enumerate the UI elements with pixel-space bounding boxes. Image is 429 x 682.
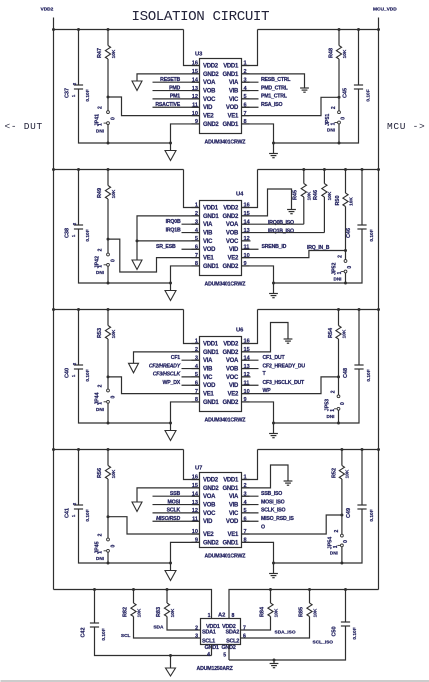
svg-text:GND1: GND1 bbox=[223, 122, 239, 128]
svg-text:5: 5 bbox=[223, 653, 226, 659]
svg-text:VDD1: VDD1 bbox=[223, 63, 239, 69]
svg-text:VOB: VOB bbox=[203, 88, 216, 94]
svg-text:GND1: GND1 bbox=[223, 72, 239, 78]
svg-text:C40: C40 bbox=[65, 368, 71, 378]
svg-text:ADUM3401CRWZ: ADUM3401CRWZ bbox=[205, 554, 247, 560]
svg-text:VID: VID bbox=[203, 519, 213, 525]
jumper JP51 DNI bbox=[338, 97, 340, 111]
svg-text:VDD2: VDD2 bbox=[41, 7, 54, 13]
svg-text:VIB: VIB bbox=[229, 88, 239, 94]
net MOSI bbox=[153, 504, 200, 506]
capacitor C45 0.1UF bbox=[358, 30, 360, 86]
svg-text:4: 4 bbox=[207, 652, 210, 658]
svg-text:ISOLATION CIRCUIT: ISOLATION CIRCUIT bbox=[132, 9, 270, 25]
svg-text:C48: C48 bbox=[343, 368, 349, 378]
svg-text:SDA: SDA bbox=[153, 625, 164, 631]
bus MCU_VDD right vertical bbox=[378, 18, 380, 590]
wire VDD rail left section U3 bbox=[54, 29, 184, 31]
ground (signal) left bbox=[129, 363, 139, 373]
net CF1_DUT bbox=[242, 359, 259, 361]
wire VE enable branch right bbox=[242, 251, 346, 258]
svg-text:2: 2 bbox=[98, 248, 104, 251]
svg-text:R48: R48 bbox=[329, 48, 335, 58]
wire VDD2 rail bottom left bbox=[54, 590, 212, 619]
svg-text:R49: R49 bbox=[97, 188, 103, 198]
svg-text:VOA: VOA bbox=[203, 80, 216, 86]
svg-text:3: 3 bbox=[195, 633, 198, 639]
svg-text:0.10F: 0.10F bbox=[85, 369, 91, 381]
svg-text:DNI: DNI bbox=[96, 556, 104, 561]
svg-text:VIA: VIA bbox=[203, 222, 213, 228]
svg-text:ADUM3401CRWZ: ADUM3401CRWZ bbox=[205, 282, 247, 288]
svg-text:2: 2 bbox=[98, 106, 104, 109]
svg-text:10K: 10K bbox=[274, 608, 280, 617]
svg-text:IRQ0B: IRQ0B bbox=[166, 219, 181, 225]
net SSB_ISO bbox=[242, 495, 259, 497]
svg-text:VID: VID bbox=[229, 383, 239, 389]
svg-text:C49: C49 bbox=[346, 508, 352, 518]
wire GND2 bottom left + ground bbox=[171, 542, 200, 570]
bus VDD2 left vertical bbox=[53, 18, 55, 590]
svg-text:C50: C50 bbox=[332, 626, 338, 636]
svg-text:VIC: VIC bbox=[229, 511, 239, 517]
svg-text:VIC: VIC bbox=[203, 239, 213, 245]
resistor R82 10K bbox=[133, 590, 135, 604]
resistor R46 10K bbox=[323, 168, 326, 171]
jumper JP45 DNI bbox=[107, 517, 109, 538]
jumper JP53 DNI bbox=[338, 377, 340, 395]
capacitor C48 0.1UF bbox=[358, 310, 360, 366]
svg-text:VOA: VOA bbox=[226, 358, 239, 364]
svg-text:GND1: GND1 bbox=[223, 540, 239, 546]
svg-text:SR_ESB: SR_ESB bbox=[156, 244, 176, 250]
svg-text:GND2: GND2 bbox=[203, 540, 219, 546]
svg-text:10K: 10K bbox=[313, 608, 319, 617]
net RSACTIVE bbox=[153, 106, 200, 108]
wire GND pin left + ground bbox=[137, 488, 200, 502]
svg-text:SCL_ISO: SCL_ISO bbox=[313, 640, 334, 646]
svg-text:MISO/RSD: MISO/RSD bbox=[156, 516, 181, 522]
svg-text:0: 0 bbox=[347, 266, 353, 269]
resistor R84 10K bbox=[270, 590, 272, 604]
svg-text:0.10F: 0.10F bbox=[352, 627, 358, 639]
capacitor C37 0.1UF bbox=[78, 30, 80, 86]
capacitor C38 0.1UF bbox=[78, 170, 80, 226]
svg-text:VOB: VOB bbox=[226, 230, 239, 236]
wire GND pin left + ground bbox=[137, 74, 200, 81]
svg-text:7: 7 bbox=[243, 625, 246, 631]
net PM1_CTRL bbox=[242, 98, 259, 100]
net SCLK_ISO bbox=[242, 512, 259, 514]
resistor R50 10K bbox=[345, 170, 347, 194]
capacitor C46 0.1UF bbox=[361, 170, 363, 226]
wire GND bottom right + earth ground bbox=[242, 124, 274, 154]
net CF1 bbox=[182, 359, 200, 361]
ground (signal) A2 left bbox=[170, 656, 172, 669]
svg-text:1: 1 bbox=[330, 409, 336, 412]
wire GND pin right + earth ground bbox=[242, 465, 289, 488]
net RSA_ISO bbox=[242, 106, 259, 108]
svg-text:0.10F: 0.10F bbox=[85, 89, 91, 101]
svg-text:VIB: VIB bbox=[229, 502, 239, 508]
wire GND2 bottom left + ground bbox=[171, 266, 200, 291]
svg-text:GND1: GND1 bbox=[203, 264, 219, 270]
net WP_DX bbox=[182, 384, 200, 386]
svg-text:C46: C46 bbox=[346, 228, 352, 238]
wire GND bottom right + earth ground bbox=[242, 542, 274, 573]
svg-text:ADUM3401CRWZ: ADUM3401CRWZ bbox=[205, 140, 247, 146]
wire GND pin right + earth ground bbox=[242, 189, 292, 216]
svg-text:R83: R83 bbox=[156, 607, 162, 617]
svg-text:DNI: DNI bbox=[334, 277, 342, 282]
ground (signal) left bbox=[132, 81, 142, 91]
resistor R53 10K bbox=[107, 310, 109, 326]
svg-text:SRENB_ID: SRENB_ID bbox=[262, 244, 287, 250]
window edge artifact bbox=[1, 680, 429, 681]
svg-text:C41: C41 bbox=[65, 508, 71, 518]
wire GND2 bottom A2 + earth bbox=[228, 645, 230, 661]
net SRENB_ID bbox=[242, 248, 259, 250]
resistor R56 10K bbox=[107, 450, 109, 466]
resistor R52 10K bbox=[341, 450, 343, 466]
wire GND bottom right + earth ground bbox=[242, 402, 274, 434]
svg-text:SCL2: SCL2 bbox=[226, 639, 239, 645]
svg-text:VE1: VE1 bbox=[203, 256, 214, 262]
svg-text:IRQ_IN_B: IRQ_IN_B bbox=[307, 245, 330, 251]
svg-text:0.10F: 0.10F bbox=[366, 89, 372, 101]
svg-text:C37: C37 bbox=[65, 88, 71, 98]
wire GND pin left + ground bbox=[134, 352, 200, 363]
resistor R45 10K bbox=[302, 168, 305, 171]
ground (signal) left bbox=[132, 502, 142, 512]
isolator IC U7 ADUM3401CRWZ bbox=[200, 473, 242, 548]
svg-text:GND2: GND2 bbox=[223, 214, 239, 220]
isolator IC U3 ADUM3401CRWZ bbox=[200, 59, 242, 134]
net CF2_HREADY_DU bbox=[242, 368, 259, 370]
svg-text:O: O bbox=[261, 524, 265, 530]
svg-text:1: 1 bbox=[98, 265, 104, 268]
svg-text:C42: C42 bbox=[81, 627, 87, 637]
wire GND pin right + earth ground bbox=[242, 74, 305, 88]
svg-text:0: 0 bbox=[343, 540, 349, 543]
svg-text:0.10F: 0.10F bbox=[369, 509, 375, 521]
svg-text:DNI: DNI bbox=[330, 551, 338, 556]
svg-text:10K: 10K bbox=[342, 49, 348, 58]
svg-text:GND2: GND2 bbox=[223, 350, 239, 356]
net MISO/RSD bbox=[153, 520, 200, 522]
net PM1 bbox=[153, 98, 200, 100]
svg-text:VOC: VOC bbox=[226, 375, 239, 381]
svg-text:MCU ->: MCU -> bbox=[387, 121, 425, 132]
svg-text:MISO_RSD_IS: MISO_RSD_IS bbox=[261, 516, 294, 522]
svg-text:WP_DX: WP_DX bbox=[163, 380, 181, 386]
wire VE enable branch left bbox=[108, 97, 200, 116]
svg-text:U3: U3 bbox=[195, 52, 203, 58]
svg-text:R84: R84 bbox=[260, 606, 266, 617]
wire VDD rail right section U7 bbox=[258, 449, 379, 451]
svg-text:U4: U4 bbox=[236, 192, 244, 198]
svg-text:SDA1: SDA1 bbox=[202, 629, 216, 635]
wire VDD rail left section U7 bbox=[54, 449, 184, 451]
svg-text:VOA: VOA bbox=[226, 222, 239, 228]
svg-text:VOD: VOD bbox=[203, 247, 216, 253]
svg-text:10K: 10K bbox=[341, 329, 347, 338]
svg-text:VIA: VIA bbox=[229, 80, 239, 86]
svg-text:VDD2: VDD2 bbox=[203, 477, 219, 483]
svg-text:8: 8 bbox=[232, 613, 235, 619]
wire GND pin right + earth ground bbox=[242, 323, 289, 352]
svg-text:2: 2 bbox=[331, 390, 337, 393]
svg-text:VIB: VIB bbox=[203, 230, 213, 236]
svg-text:VE2: VE2 bbox=[228, 392, 239, 398]
net PMD bbox=[153, 90, 200, 92]
svg-text:GND2: GND2 bbox=[223, 400, 239, 406]
svg-text:0: 0 bbox=[110, 259, 116, 262]
svg-text:R45: R45 bbox=[293, 190, 299, 200]
svg-text:VDD1: VDD1 bbox=[203, 205, 219, 211]
svg-text:10K: 10K bbox=[345, 469, 351, 478]
svg-text:CF2_HREADY_DU: CF2_HREADY_DU bbox=[263, 363, 306, 369]
wire MCU_VDD rail bottom right bbox=[229, 590, 379, 619]
svg-text:A2: A2 bbox=[218, 613, 225, 619]
svg-text:GND1: GND1 bbox=[223, 486, 239, 492]
resistor R83 10K bbox=[166, 590, 168, 604]
svg-text:10K: 10K bbox=[111, 329, 117, 338]
svg-text:R53: R53 bbox=[97, 328, 103, 338]
svg-text:WP: WP bbox=[263, 388, 272, 394]
svg-text:0: 0 bbox=[340, 402, 346, 405]
svg-text:VE2: VE2 bbox=[228, 256, 239, 262]
net PMD_CTRL bbox=[242, 90, 259, 92]
svg-text:10K: 10K bbox=[348, 197, 354, 206]
svg-text:DNI: DNI bbox=[96, 128, 104, 133]
wire VE enable branch left bbox=[108, 239, 200, 272]
svg-text:VE2: VE2 bbox=[203, 114, 214, 120]
svg-text:ADUM3401CRWZ: ADUM3401CRWZ bbox=[205, 418, 247, 424]
svg-text:0: 0 bbox=[340, 117, 346, 120]
svg-text:IRQ1B_ISO: IRQ1B_ISO bbox=[268, 228, 294, 234]
svg-text:1: 1 bbox=[98, 402, 104, 405]
svg-text:SDA_ISO: SDA_ISO bbox=[275, 629, 296, 635]
svg-text:MOSI: MOSI bbox=[168, 499, 181, 505]
svg-text:0.10F: 0.10F bbox=[369, 229, 375, 241]
net MISO_RSD_IS bbox=[242, 520, 259, 522]
net IRQ0B bbox=[182, 223, 200, 225]
svg-text:VE2: VE2 bbox=[203, 532, 214, 538]
svg-text:SSB_ISO: SSB_ISO bbox=[261, 491, 282, 497]
isolator IC U6 ADUM3401CRWZ bbox=[200, 337, 242, 412]
svg-text:GND1: GND1 bbox=[203, 214, 219, 220]
svg-text:2: 2 bbox=[98, 533, 104, 536]
svg-text:VID: VID bbox=[229, 247, 239, 253]
svg-text:VDD1: VDD1 bbox=[203, 341, 219, 347]
capacitor C49 0.1UF bbox=[361, 450, 363, 506]
svg-text:1: 1 bbox=[208, 613, 211, 619]
net RESETB bbox=[153, 81, 200, 83]
svg-text:VDD2: VDD2 bbox=[223, 341, 239, 347]
net CF3/HSCLK bbox=[182, 376, 200, 378]
svg-text:10K: 10K bbox=[307, 191, 313, 200]
net RESB_CTRL bbox=[242, 81, 259, 83]
svg-text:R46: R46 bbox=[313, 190, 319, 200]
net MOSI_ISO bbox=[242, 504, 259, 506]
capacitor C41 0.1UF bbox=[78, 450, 80, 506]
svg-text:GND1: GND1 bbox=[203, 350, 219, 356]
svg-text:R85: R85 bbox=[299, 607, 305, 617]
svg-text:1: 1 bbox=[98, 123, 104, 126]
svg-text:10K: 10K bbox=[111, 469, 117, 478]
svg-text:DNI: DNI bbox=[327, 128, 335, 133]
net SSB bbox=[153, 495, 200, 497]
svg-text:SSB: SSB bbox=[170, 491, 181, 497]
svg-text:6: 6 bbox=[243, 633, 246, 639]
svg-text:VOD: VOD bbox=[226, 105, 239, 111]
svg-text:VIC: VIC bbox=[229, 97, 239, 103]
jumper JP42 DNI bbox=[107, 239, 109, 253]
svg-text:C45: C45 bbox=[343, 88, 349, 98]
ground (signal) left bbox=[132, 260, 142, 270]
svg-text:VE1: VE1 bbox=[203, 392, 214, 398]
wire GND bottom right + earth ground bbox=[242, 266, 274, 294]
jumper JP54 DNI bbox=[341, 515, 343, 534]
svg-text:GND2: GND2 bbox=[203, 486, 219, 492]
net SCLK bbox=[153, 512, 200, 514]
wire VE enable branch left bbox=[108, 517, 200, 534]
svg-text:0.10F: 0.10F bbox=[85, 229, 91, 241]
svg-text:SDA2: SDA2 bbox=[225, 629, 239, 635]
net CF2/HREADY bbox=[182, 368, 200, 370]
svg-text:CF3_HSCLK_DUT: CF3_HSCLK_DUT bbox=[263, 380, 306, 386]
wire GND pin left + ground bbox=[137, 216, 200, 260]
svg-text:0.10F: 0.10F bbox=[366, 369, 372, 381]
I2C isolator A2 ADUM1250ARZ bbox=[201, 619, 241, 645]
wire VDD rail left section U6 bbox=[54, 309, 184, 311]
svg-text:0.10F: 0.10F bbox=[85, 509, 91, 521]
svg-text:MCU_VDD: MCU_VDD bbox=[373, 7, 397, 13]
svg-text:PMD: PMD bbox=[169, 85, 180, 91]
svg-text:RSACTIVE: RSACTIVE bbox=[155, 102, 180, 108]
svg-text:DNI: DNI bbox=[96, 407, 104, 412]
svg-text:R47: R47 bbox=[97, 48, 103, 58]
resistor R47 10K bbox=[107, 30, 109, 46]
svg-text:C38: C38 bbox=[65, 228, 71, 238]
svg-text:GND2: GND2 bbox=[203, 72, 219, 78]
svg-text:2: 2 bbox=[334, 529, 340, 532]
capacitor C42 0.1UF bbox=[94, 590, 96, 624]
svg-text:PM1: PM1 bbox=[170, 94, 180, 100]
wire GND2 bottom left + ground bbox=[171, 124, 200, 151]
svg-text:0: 0 bbox=[110, 396, 116, 399]
wire GND2 bottom left + ground bbox=[171, 402, 200, 431]
svg-text:10K: 10K bbox=[327, 191, 333, 200]
svg-text:2: 2 bbox=[195, 625, 198, 631]
svg-text:SCLK: SCLK bbox=[167, 508, 181, 514]
svg-text:1: 1 bbox=[330, 122, 336, 125]
resistor R48 10K bbox=[338, 30, 340, 46]
svg-text:R52: R52 bbox=[332, 468, 338, 478]
svg-text:R50: R50 bbox=[335, 195, 341, 205]
svg-text:VIB: VIB bbox=[203, 366, 213, 372]
svg-text:CF2/HREADY: CF2/HREADY bbox=[149, 363, 181, 369]
svg-text:SCL: SCL bbox=[121, 633, 131, 639]
resistor R54 10K bbox=[338, 310, 340, 326]
svg-text:VOD: VOD bbox=[203, 383, 216, 389]
jumper JP41 DNI bbox=[107, 97, 109, 111]
svg-text:U6: U6 bbox=[236, 328, 244, 334]
svg-text:SCL1: SCL1 bbox=[202, 639, 215, 645]
svg-text:VOD: VOD bbox=[226, 519, 239, 525]
isolator IC U4 ADUM3401CRWZ bbox=[200, 201, 242, 276]
wire VDD rail right section U3 bbox=[258, 29, 379, 31]
wire VE enable branch right bbox=[242, 515, 342, 534]
svg-text:10K: 10K bbox=[111, 49, 117, 58]
svg-text:PMD_CTRL: PMD_CTRL bbox=[261, 85, 289, 91]
svg-text:VID: VID bbox=[203, 105, 213, 111]
svg-text:0: 0 bbox=[110, 117, 116, 120]
jumper JP52 DNI bbox=[345, 251, 347, 260]
svg-text:VOC: VOC bbox=[203, 97, 216, 103]
svg-text:RESB_CTRL: RESB_CTRL bbox=[261, 77, 291, 83]
svg-text:VOB: VOB bbox=[203, 502, 216, 508]
svg-text:SCLK_ISO: SCLK_ISO bbox=[261, 508, 286, 514]
svg-text:0.10F: 0.10F bbox=[101, 628, 107, 640]
svg-text:0: 0 bbox=[110, 545, 116, 548]
svg-text:IRQ1B: IRQ1B bbox=[166, 227, 181, 233]
wire VDD rail right section U4 bbox=[258, 169, 379, 171]
svg-text:ADUM1250ARZ: ADUM1250ARZ bbox=[197, 666, 234, 672]
resistor R85 10K bbox=[309, 590, 311, 604]
svg-text:VOC: VOC bbox=[203, 511, 216, 517]
svg-text:<- DUT: <- DUT bbox=[5, 121, 43, 132]
svg-text:VIA: VIA bbox=[203, 358, 213, 364]
svg-text:IRQ0B_ISO: IRQ0B_ISO bbox=[268, 220, 294, 226]
svg-text:GND2: GND2 bbox=[203, 122, 219, 128]
net CF3_HSCLK_DUT bbox=[242, 384, 259, 386]
jumper JP44 DNI bbox=[107, 377, 109, 389]
svg-text:1: 1 bbox=[333, 545, 339, 548]
svg-text:10K: 10K bbox=[111, 189, 117, 198]
svg-text:RESETB: RESETB bbox=[160, 77, 180, 83]
svg-text:R82: R82 bbox=[123, 607, 129, 617]
svg-text:VE1: VE1 bbox=[228, 114, 239, 120]
net SR_ESB bbox=[182, 248, 200, 250]
svg-text:R56: R56 bbox=[97, 468, 103, 478]
capacitor C40 0.1UF bbox=[78, 310, 80, 366]
svg-text:VOB: VOB bbox=[226, 366, 239, 372]
svg-text:MOSI_ISO: MOSI_ISO bbox=[261, 499, 285, 505]
svg-text:10K: 10K bbox=[137, 608, 143, 617]
svg-text:GND2: GND2 bbox=[223, 264, 239, 270]
svg-text:RSA_ISO: RSA_ISO bbox=[261, 102, 283, 108]
svg-text:CF1_DUT: CF1_DUT bbox=[263, 355, 286, 361]
svg-text:R54: R54 bbox=[328, 327, 334, 338]
svg-text:1: 1 bbox=[98, 551, 104, 554]
svg-text:DNI: DNI bbox=[327, 414, 335, 419]
svg-text:2: 2 bbox=[338, 255, 344, 258]
wire VE enable branch left bbox=[108, 377, 200, 394]
svg-text:CF3/HSCLK: CF3/HSCLK bbox=[153, 372, 182, 378]
net IRQ1B bbox=[182, 232, 200, 234]
svg-text:CF1: CF1 bbox=[171, 355, 181, 361]
svg-text:2: 2 bbox=[98, 384, 104, 387]
svg-text:VDD2: VDD2 bbox=[223, 205, 239, 211]
svg-text:U7: U7 bbox=[195, 466, 202, 472]
capacitor C50 0.1UF bbox=[345, 590, 347, 623]
wire VDD rail right section U6 bbox=[258, 309, 379, 311]
svg-text:PM1_CTRL: PM1_CTRL bbox=[261, 94, 288, 100]
svg-text:VIA: VIA bbox=[229, 494, 239, 500]
wire VE enable branch right bbox=[242, 97, 340, 115]
